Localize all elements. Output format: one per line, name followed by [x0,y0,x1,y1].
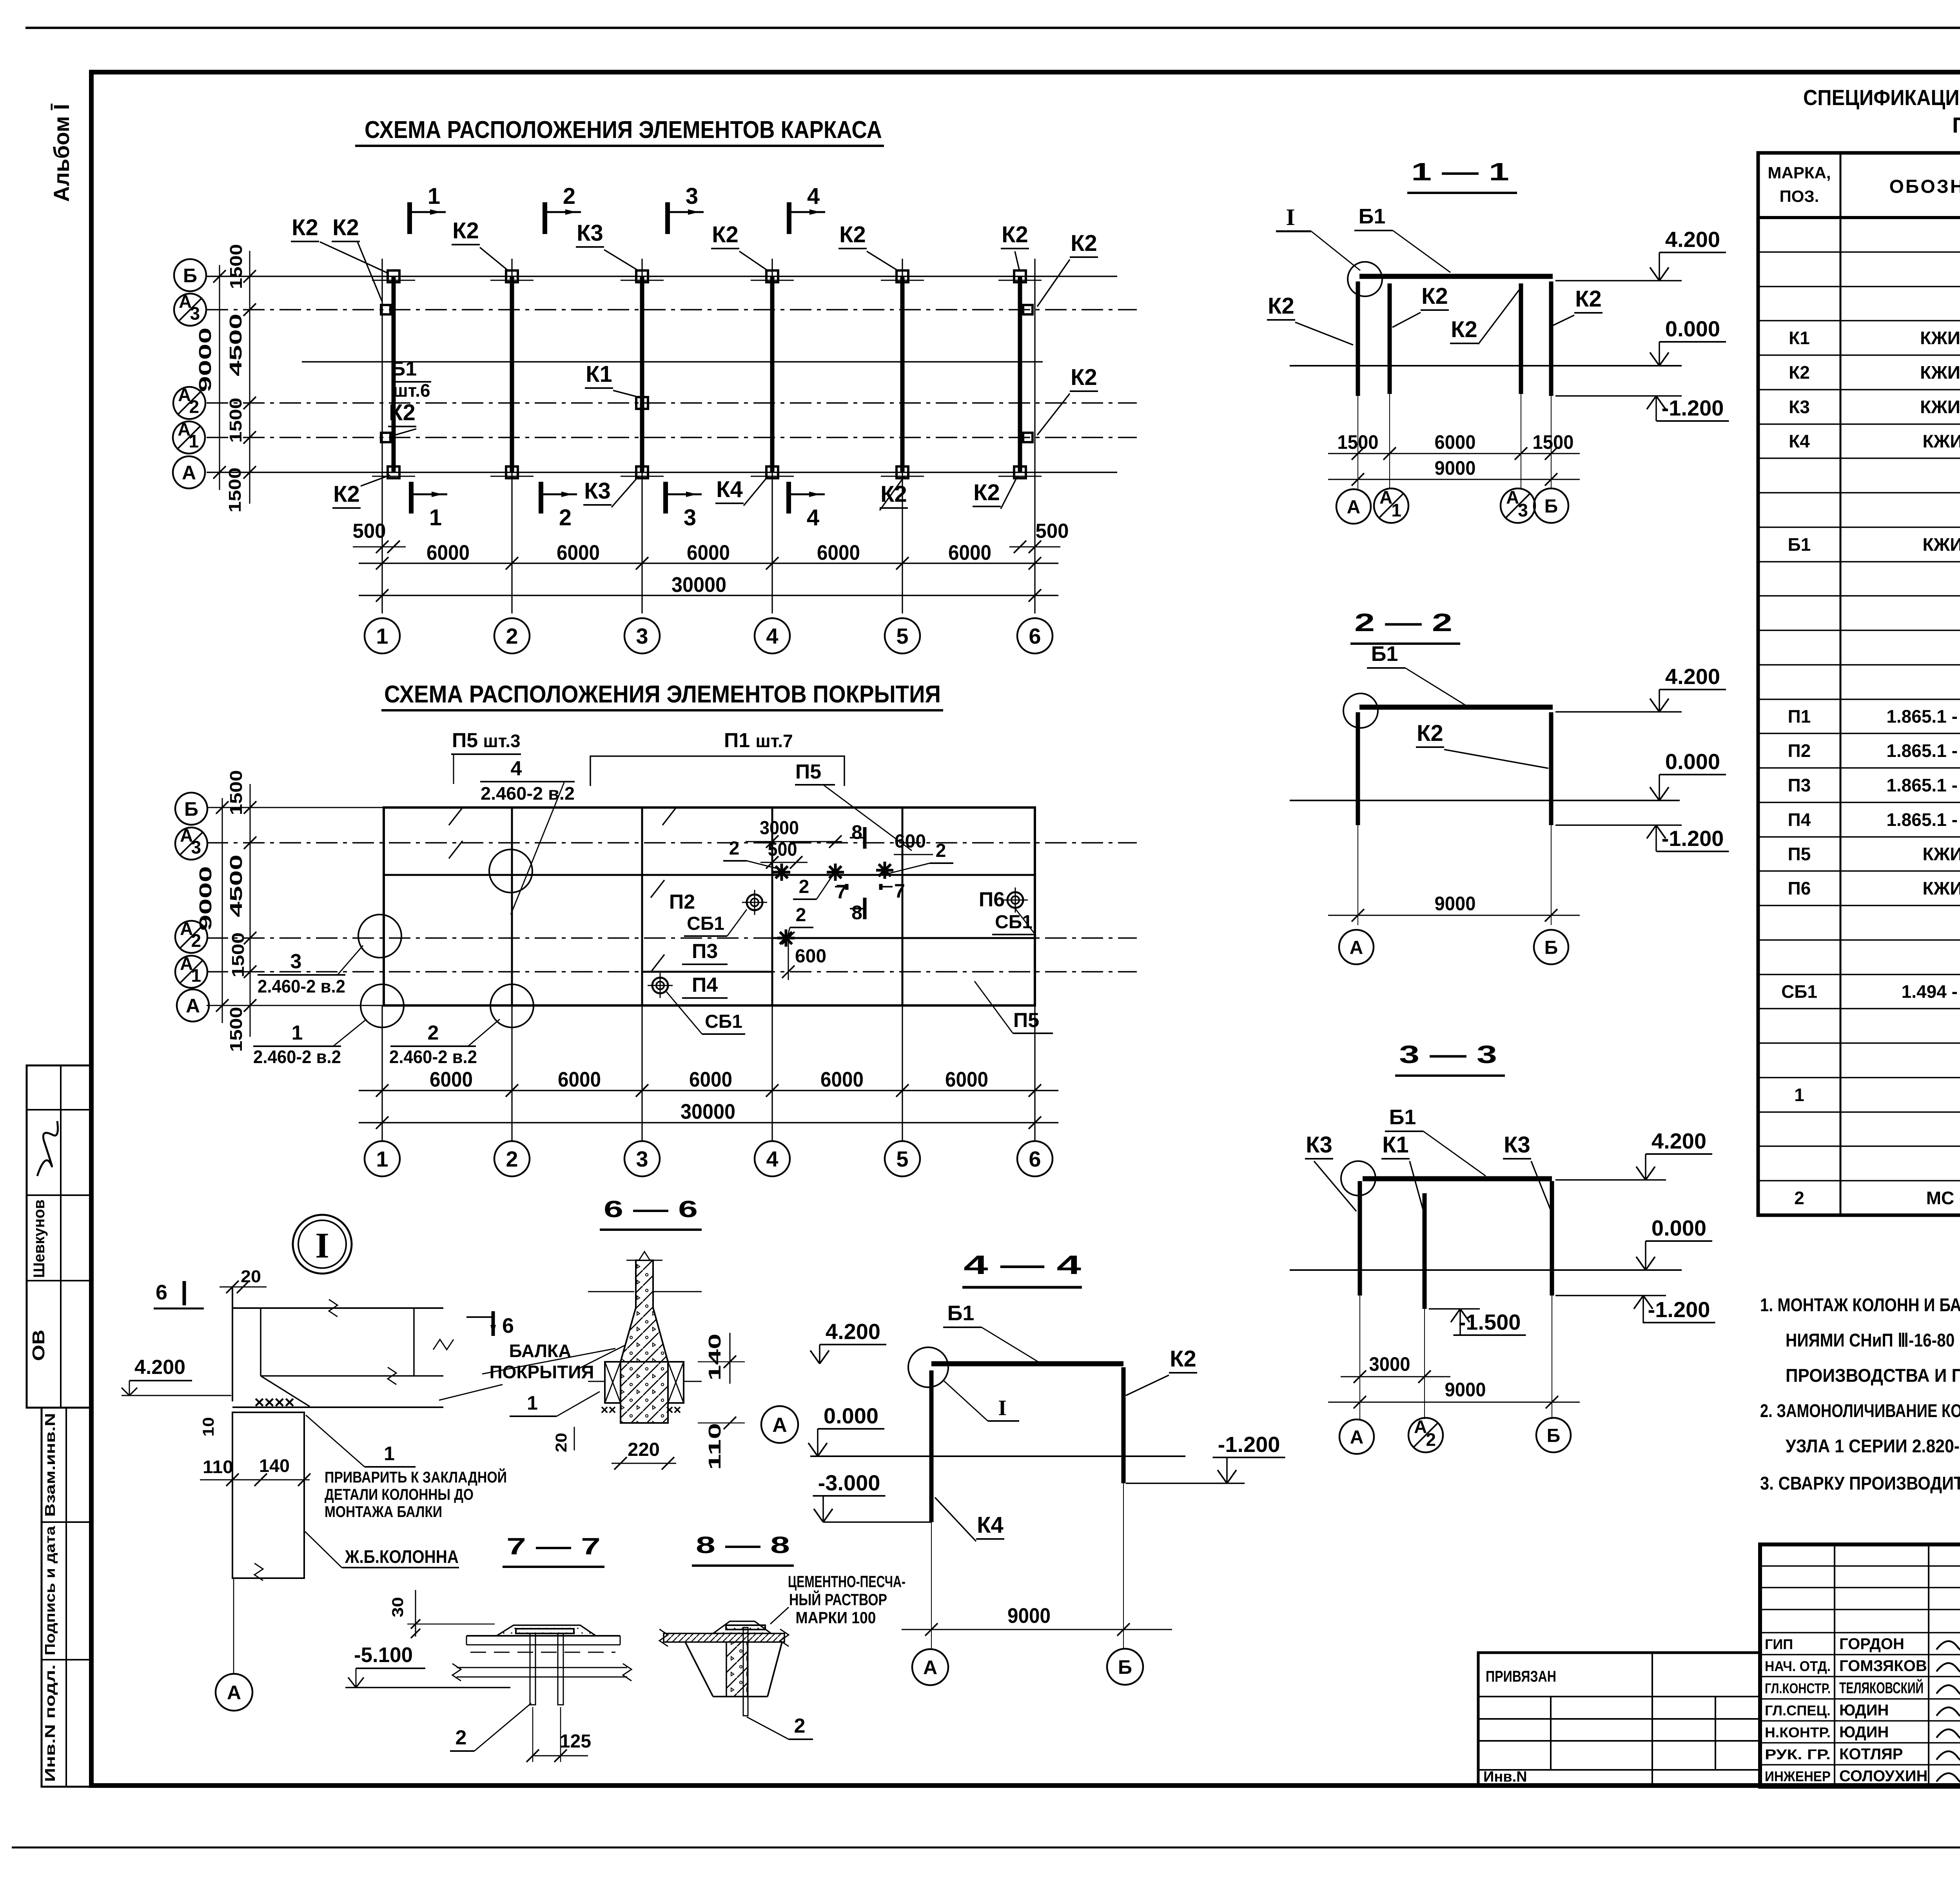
4-4 extensions [931,1522,932,1649]
svg-text:КОТЛЯР: КОТЛЯР [1839,1746,1903,1763]
1-1 column Б К2 [1549,281,1553,396]
svg-text:МАРКИ 100: МАРКИ 100 [796,1608,876,1627]
svg-text:2. ЗАМОНОЛИЧИВАНИЕ КОЛОНН В: 2. ЗАМОНОЛИЧИВАНИЕ КОЛОНН В СТАКАНАХ ФУН… [1760,1400,1960,1421]
svg-text:К2: К2 [839,222,866,247]
svg-text:БАЛКА: БАЛКА [509,1341,572,1361]
svg-text:××××: ×××× [254,1393,295,1412]
2-2 level 4.200 [1555,711,1682,713]
узел circle 3 (А/2) [358,915,401,958]
svg-text:8: 8 [851,821,862,843]
plan2 plate boundary line [384,874,1035,876]
beam Б1 on axis 4 [770,276,775,472]
spec table outer border [1758,153,1960,1215]
svg-text:6: 6 [1029,1147,1041,1171]
svg-text:КЖИ - 7.0.0: КЖИ - 7.0.0 [1923,878,1960,898]
plan2 axis extension 2 [511,1005,512,1141]
svg-text:П5: П5 [1788,844,1811,864]
svg-text:4: 4 [511,757,522,780]
1-1 axis circle А [1336,489,1371,524]
привязан table [1478,1653,1760,1786]
8-8 column hatched [726,1642,748,1697]
4-4 beam [931,1361,1123,1366]
axis bubble 5 plan1 [885,618,920,653]
svg-text:2.460-2 в.2: 2.460-2 в.2 [389,1047,477,1067]
3-3 ground line [1290,1269,1682,1271]
svg-text:9000: 9000 [1435,457,1476,479]
8-8 mortar cap [713,1621,771,1633]
8-8 embedded plate [726,1625,765,1630]
svg-text:А: А [186,995,200,1017]
column square axis 6 row А [1014,466,1026,478]
svg-text:I: I [315,1225,329,1265]
узел circle 2 (А row axis2) [490,984,534,1027]
column square axis 3 row А [636,466,648,478]
svg-text:Взам.инв.N: Взам.инв.N [42,1413,58,1517]
svg-text:1: 1 [292,1022,303,1044]
svg-text:1: 1 [191,965,201,985]
svg-text:1: 1 [384,1443,395,1464]
svg-text:2: 2 [559,505,572,530]
svg-text:-3.000: -3.000 [818,1470,880,1495]
6-6 axis circle А [761,1406,798,1443]
7-7 embedded plate [516,1629,574,1633]
plan2 axis extension 3 [641,1005,642,1141]
6-6 base block [621,1362,668,1423]
svg-text:К2: К2 [973,480,1000,505]
svg-text:20: 20 [553,1433,570,1452]
svg-text:ГЛ.СПЕЦ.: ГЛ.СПЕЦ. [1765,1702,1831,1718]
svg-text:А: А [182,462,196,484]
svg-text:ПРИВЯЗАН: ПРИВЯЗАН [1486,1668,1556,1685]
svg-text:К1: К1 [586,361,612,387]
svg-text:3: 3 [190,303,200,323]
3-3 dim 3000 [1341,1376,1450,1377]
svg-text:110: 110 [203,1457,233,1477]
СБ1 target П2 [747,895,762,910]
3-3 beam Б1 [1363,1176,1552,1181]
узел detail beam outline [232,1287,233,1401]
column square axis6 row А/1 [1023,433,1033,442]
plan2 dim chain segments [250,784,251,1037]
svg-text:1.494 - 24 вып.1: 1.494 - 24 вып.1 [1902,982,1960,1002]
axis bubble 3 plan2 [624,1141,660,1176]
plan2 row А/1 dash-dot [207,971,1137,973]
svg-text:КЖИ - 5.0.0: КЖИ - 5.0.0 [1923,534,1960,555]
svg-text:П5: П5 [795,760,821,783]
svg-text:Б1: Б1 [947,1301,975,1325]
spec table column lines [1840,153,1842,1215]
svg-text:РУК. ГР.: РУК. ГР. [1765,1746,1831,1762]
svg-text:А: А [227,1682,241,1704]
svg-text:Б1: Б1 [391,357,417,380]
узел circle 4 (axis2/plate line) [489,849,532,893]
3-3 level -1.200 [1555,1295,1666,1296]
4-4 axis circle А [912,1649,948,1685]
svg-text:ПОЗ.: ПОЗ. [1780,187,1819,205]
svg-text:К2: К2 [1071,230,1097,256]
svg-text:4.200: 4.200 [134,1356,185,1379]
svg-text:6: 6 [1029,624,1041,648]
1-1 axis circle Б [1534,488,1568,523]
plan1 axis line 3 [641,259,642,613]
svg-text:ГОРДОН: ГОРДОН [1839,1635,1904,1653]
svg-text:20: 20 [241,1267,261,1286]
svg-text:5: 5 [896,624,908,648]
svg-text:1: 1 [429,505,442,530]
plan2 axis extension 4 [771,1005,773,1141]
svg-text:1: 1 [189,431,199,451]
6-6 right flange [668,1362,684,1403]
svg-text:ИНЖЕНЕР: ИНЖЕНЕР [1765,1768,1831,1784]
svg-text:ПРИВАРИТЬ К ЗАКЛАДНОЙ: ПРИВАРИТЬ К ЗАКЛАДНОЙ [325,1468,507,1486]
axis bubble 4 plan1 [755,618,790,653]
svg-text:1: 1 [1391,500,1401,520]
svg-text:А: А [1506,487,1519,508]
svg-text:3: 3 [686,183,698,209]
axis bubble 5 plan2 [885,1141,920,1176]
svg-text:2: 2 [189,396,200,417]
column square axis 1 row А [388,466,399,478]
7-7 slab top band [466,1635,620,1637]
svg-text:К1: К1 [1789,328,1810,348]
spec table row lines [1758,251,1960,253]
plan1 axis line 4 [771,259,773,613]
spec table header bottom line [1758,216,1960,219]
svg-text:ЦЕМЕНТНО-ПЕСЧА-: ЦЕМЕНТНО-ПЕСЧА- [788,1572,906,1591]
svg-text:1500: 1500 [229,933,248,978]
svg-text:К3: К3 [577,220,603,246]
2-2 level -1.200 [1555,824,1682,826]
axis bubble 6 plan1 [1017,618,1053,653]
svg-text:1: 1 [1794,1085,1804,1105]
svg-text:шт.3: шт.3 [483,731,520,751]
svg-text:××: ×× [666,1403,681,1417]
svg-text:А: А [772,1414,787,1437]
sheet top edge line [25,27,1960,29]
8-8 central rod [743,1628,748,1716]
plan1 beam mid line [302,361,1043,363]
svg-text:Б1: Б1 [1788,534,1811,555]
3-3 level 4.200 [1555,1179,1666,1181]
svg-text:НЫЙ РАСТВОР: НЫЙ РАСТВОР [789,1590,887,1609]
svg-text:К2: К2 [1170,1346,1196,1372]
svg-text:Шевкунов: Шевкунов [31,1199,48,1278]
1-1 extension lines [1357,396,1358,489]
svg-text:110: 110 [705,1423,724,1470]
svg-text:2: 2 [1794,1188,1804,1208]
column under joint [232,1412,304,1578]
svg-text:0.000: 0.000 [1665,316,1720,341]
3-3 axis circle А/2 [1408,1418,1443,1452]
svg-text:4.200: 4.200 [1665,664,1720,689]
svg-text:ПРОИЗВОДСТВА И ПРИЕМКИ РАБО: ПРОИЗВОДСТВА И ПРИЕМКИ РАБОТ”, И СЕРИЕЙ … [1786,1365,1960,1386]
svg-text:6: 6 [156,1281,167,1304]
svg-text:Альбом Ī: Альбом Ī [49,103,74,202]
svg-text:6000: 6000 [687,541,730,564]
svg-text:СБ1: СБ1 [995,912,1033,933]
svg-text:2: 2 [729,838,740,859]
axis circle А plan2 [177,989,209,1022]
svg-text:МАРКА,: МАРКА, [1768,163,1831,182]
svg-text:1: 1 [527,1392,538,1414]
svg-text:К2: К2 [712,222,739,247]
svg-text:К2: К2 [292,215,318,240]
svg-text:1: 1 [428,183,440,209]
1-1 узел circle [1348,262,1382,296]
svg-text:К4: К4 [716,477,743,502]
svg-text:МС - 1.0.0.: МС - 1.0.0. [1926,1188,1960,1208]
beam Б1 on axis 5 [900,276,905,472]
svg-text:500: 500 [1036,520,1069,543]
svg-text:ОБОЗНАЧЕНИЕ: ОБОЗНАЧЕНИЕ [1889,176,1960,197]
section markers bottom 1-4 [409,482,414,514]
svg-text:К3: К3 [1504,1132,1530,1158]
svg-text:1.865.1 - 4/80 вып.3: 1.865.1 - 4/80 вып.3 [1886,809,1960,830]
section 6 mark right [492,1311,495,1336]
svg-text:СПЕЦИФИКАЦИЯ К СХЕМАМ РАСПО: СПЕЦИФИКАЦИЯ К СХЕМАМ РАСПОЛОЖЕНИЯ ЭЛЕМЕ… [1803,85,1960,110]
column square axis1 row А/3 [381,305,390,314]
svg-text:I: I [1286,204,1295,230]
3-3 dim 9000 [1328,1402,1580,1403]
plan1 axis line 1 [381,259,383,613]
axis circle А/2 plan2 [175,921,207,953]
svg-text:8: 8 [851,902,862,924]
3-3 level -1.500 [1429,1308,1480,1310]
svg-text:2.460-2 в.2: 2.460-2 в.2 [253,1047,341,1067]
svg-text:4.200: 4.200 [1665,227,1720,252]
2-2 axis circle Б [1534,930,1568,964]
6-6 left flange [605,1362,621,1403]
plan2 axis extension 6 [1034,1005,1035,1141]
section markers top 1-4 [407,202,412,234]
svg-text:6000: 6000 [558,1068,601,1091]
axis circle А/3 plan1 [174,294,206,326]
svg-text:3000: 3000 [1369,1353,1410,1375]
4-4 dim 9000 [902,1629,1172,1630]
svg-text:шт.6: шт.6 [393,380,430,401]
3-3 column А К3 [1358,1181,1362,1296]
svg-text:Б1: Б1 [1359,205,1386,228]
plan2 row А left stub [207,1005,384,1006]
svg-text:А: А [1414,1417,1427,1437]
svg-text:НАЧ. ОТД.: НАЧ. ОТД. [1765,1658,1831,1674]
2-2 ground line [1290,800,1680,801]
svg-text:-1.200: -1.200 [1648,1297,1710,1322]
beam Б1 on axis 3 [640,276,644,472]
svg-text:Б1: Б1 [1371,642,1398,666]
svg-text:4: 4 [807,505,819,530]
plate diag mark 1 [449,808,463,825]
column square axis 6 row Б [1014,270,1026,282]
column axis to А [233,1578,234,1674]
title block main outline [1760,1544,1960,1787]
column square axis1 row А/1 [381,433,390,442]
svg-text:2: 2 [456,1726,467,1749]
plan2 row А/2 dash-dot [207,937,1137,939]
svg-text:К2: К2 [1451,317,1477,342]
svg-text:6000: 6000 [817,541,860,564]
svg-text:2: 2 [799,876,809,897]
svg-text:К2: К2 [1421,283,1448,309]
svg-text:3: 3 [636,1147,648,1171]
svg-text:9000: 9000 [1435,893,1476,915]
svg-text:0.000: 0.000 [1651,1216,1706,1240]
svg-text:-1.200: -1.200 [1662,396,1724,420]
1-1 ground line [1290,365,1682,367]
svg-text:СХЕМА РАСПОЛОЖЕНИЯ ЭЛЕМЕНТОВ: СХЕМА РАСПОЛОЖЕНИЯ ЭЛЕМЕНТОВ КАРКАСА [365,116,882,143]
svg-text:СБ1: СБ1 [687,913,724,934]
svg-text:К3: К3 [1306,1132,1332,1158]
plan2 axis extension 1 [381,1005,383,1141]
svg-text:140: 140 [705,1334,724,1381]
plan1 row line А/1 (dash-dot) [207,437,1137,438]
svg-text:4500: 4500 [227,855,246,917]
svg-text:I: I [998,1396,1007,1420]
axis bubble 1 plan2 [365,1141,400,1176]
узел circle 1 (А row) [361,984,404,1027]
column square axis 2 row Б [506,270,518,282]
svg-text:6000: 6000 [945,1068,988,1091]
svg-text:-5.100: -5.100 [354,1643,413,1667]
7-7 mortar cap [497,1625,596,1636]
svg-text:140: 140 [259,1455,290,1476]
plan2 row А/2 plate line [772,937,1035,939]
plan2 axis line 4 [771,808,773,1005]
axis circle Б plan2 [175,793,207,825]
1-1 dims 1500 6000 1500 [1328,453,1580,454]
svg-text:КЖИ - 4.0.0: КЖИ - 4.0.0 [1923,431,1960,452]
svg-text:П5: П5 [452,729,478,752]
svg-text:30000: 30000 [681,1100,735,1123]
title block left rows [1760,1565,1960,1567]
section 6 mark left [183,1281,186,1305]
svg-text:П2: П2 [669,891,695,913]
svg-text:Инв.N подл.: Инв.N подл. [42,1664,58,1782]
axis bubble 4 plan2 [755,1141,790,1176]
axis circle А/3 plan2 [175,827,207,860]
axis bubble 2 plan1 [494,618,530,653]
svg-text:Инв.N: Инв.N [1483,1769,1527,1785]
svg-text:К1: К1 [1382,1132,1409,1158]
axis bubble 2 plan2 [494,1141,530,1176]
4-4 узел circle [908,1347,948,1387]
svg-text:3: 3 [290,950,302,973]
svg-text:А: А [923,1657,937,1679]
svg-text:9000: 9000 [196,328,215,392]
svg-text:П1: П1 [1788,706,1811,727]
svg-text:-1.200: -1.200 [1218,1432,1280,1457]
svg-text:2: 2 [936,840,946,861]
svg-text:3: 3 [191,837,201,857]
svg-text:1. МОНТАЖ КОЛОНН И БАЛОК: 1. МОНТАЖ КОЛОНН И БАЛОК ПОКРЫТИЯ ПРОИЗВ… [1760,1294,1960,1315]
plate diag mark 2 [449,841,463,858]
1-1 level 4.200 [1555,280,1682,281]
svg-text:4: 4 [766,624,778,648]
svg-text:2 — 2: 2 — 2 [1354,608,1452,637]
plan2 dim line 6000s [359,1090,1058,1091]
svg-text:Ж.Б.КОЛОННА: Ж.Б.КОЛОННА [345,1546,459,1567]
sheet bottom edge line [12,1847,1960,1849]
svg-text:1500: 1500 [227,244,246,289]
svg-text:0.000: 0.000 [1665,749,1720,774]
svg-text:3 — 3: 3 — 3 [1399,1040,1497,1069]
column square axis 1 row Б [388,270,399,282]
svg-text:ТЕЛЯКОВСКИЙ: ТЕЛЯКОВСКИЙ [1839,1679,1924,1697]
4-4 column К4 [929,1370,934,1522]
svg-text:3000: 3000 [760,818,799,838]
svg-text:2.460-2 в.2: 2.460-2 в.2 [258,976,345,996]
svg-text:500: 500 [353,520,386,543]
7-7 anchor rods [530,1633,535,1705]
svg-text:9000: 9000 [1445,1379,1486,1401]
svg-text:6000: 6000 [689,1068,732,1091]
1-1 column А К2 [1356,281,1360,396]
svg-text:4.200: 4.200 [826,1319,880,1344]
svg-text:НИЯМИ СНиП Ⅲ-16-80 „БЕТОННЫЕ: НИЯМИ СНиП Ⅲ-16-80 „БЕТОННЫЕ И ЖЕЛЕЗОБЕТ… [1786,1330,1960,1350]
4-4 ground line [810,1455,1185,1457]
2-2 extensions [1357,825,1358,925]
plan1 axis line 5 [902,259,903,613]
svg-text:2: 2 [191,930,201,951]
svg-text:500: 500 [768,839,797,860]
beam break marks [329,1299,338,1317]
axis bubble 3 plan1 [624,618,660,653]
svg-text:ЮДИН: ЮДИН [1839,1702,1889,1719]
svg-text:8 — 8: 8 — 8 [696,1532,790,1558]
svg-text:Б: Б [1544,937,1558,958]
svg-text:-1.500: -1.500 [1459,1310,1521,1334]
svg-text:К3: К3 [1789,397,1810,417]
svg-text:Подпись и дата: Подпись и дата [42,1526,58,1655]
svg-text:3: 3 [684,505,696,530]
svg-text:6000: 6000 [430,1068,473,1091]
svg-text:ОВ: ОВ [29,1330,48,1361]
plan1 axis line 2 [511,259,512,613]
axis circle А/2 plan1 [173,387,205,419]
svg-text:СХЕМА РАСПОЛОЖЕНИЯ ЭЛЕМЕНТОВ: СХЕМА РАСПОЛОЖЕНИЯ ЭЛЕМЕНТОВ ПОКРЫТИЯ [384,681,941,708]
svg-text:ГИП: ГИП [1765,1636,1793,1652]
2-2 beam Б1 [1359,705,1553,710]
svg-text:1500: 1500 [226,398,245,443]
svg-text:К2: К2 [452,218,479,243]
svg-text:125: 125 [560,1731,591,1752]
svg-text:5: 5 [896,1147,908,1171]
svg-text:-1.200: -1.200 [1662,826,1724,851]
column square axis 5 row Б [897,270,908,282]
plan2 outline [384,808,1035,1005]
4-4 axis circle Б [1107,1649,1143,1685]
svg-text:1.865.1 - 4/80 вып.3: 1.865.1 - 4/80 вып.3 [1886,775,1960,795]
svg-text:МОНТАЖА БАЛКИ: МОНТАЖА БАЛКИ [325,1503,442,1521]
6-6 leader балка [482,1348,615,1374]
svg-text:А: А [1347,497,1361,517]
svg-text:30: 30 [389,1597,407,1617]
svg-text:1500: 1500 [227,1007,246,1052]
plan1 left dim line 9000 [219,265,220,490]
column square axis 5 row А [897,466,908,478]
svg-text:К2: К2 [1268,293,1294,319]
svg-text:7: 7 [894,880,905,902]
column К1 square axis3 row А/2 [636,397,648,409]
svg-text:К2: К2 [1789,362,1810,383]
7-7 dashed mid [470,1652,615,1653]
svg-text:Б: Б [184,798,198,820]
svg-text:3: 3 [636,624,648,648]
svg-text:1500: 1500 [1533,431,1574,453]
svg-text:7 — 7: 7 — 7 [506,1533,601,1559]
3-3 column Б К3 [1550,1181,1554,1296]
svg-text:П5: П5 [1013,1009,1039,1032]
